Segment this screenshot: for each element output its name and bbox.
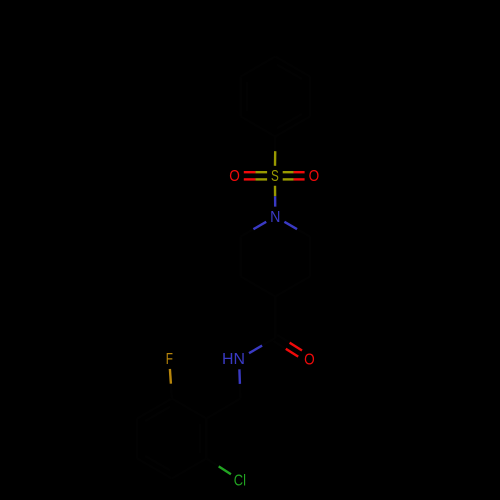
double bond C=O amide: [273, 341, 285, 349]
bond C3-C4 piperidine: [275, 277, 310, 297]
bond aryl C5-C6: [172, 459, 207, 479]
svg-text:S: S: [271, 168, 279, 185]
svg-text:O: O: [304, 352, 315, 369]
bond aryl C2 - F: [170, 384, 173, 399]
bond phenyl C1-C2: [241, 117, 276, 137]
bond aryl C6 - Cl: [206, 459, 218, 467]
bond phenyl C1 - S: [274, 137, 276, 152]
double bond phenyl C2=C3: [239, 77, 241, 117]
bond phenyl C5-C6: [309, 77, 311, 117]
bond C5-C6 piperidine: [239, 237, 241, 277]
bond C2-C3 piperidine: [309, 237, 311, 277]
svg-text:O: O: [309, 168, 320, 185]
double bond aryl C2=C3: [137, 399, 172, 419]
bond S - N piperidine: [274, 186, 277, 196]
bond CH2 - aryl C1: [206, 399, 240, 419]
svg-text:Cl: Cl: [234, 472, 246, 489]
bond N-CH2: [238, 369, 241, 384]
double bond aryl C6=C1: [205, 419, 207, 459]
bond C4 - carbonyl C: [274, 297, 276, 339]
double bond phenyl C6=C1: [275, 117, 310, 137]
double bond phenyl C4=C5: [275, 57, 310, 77]
bond aryl C3-C4: [136, 419, 138, 459]
bond C6-N piperidine: [241, 229, 254, 236]
double bond S=O left: [255, 171, 267, 173]
bond phenyl C3-C4: [241, 57, 276, 77]
bond C4-C5 piperidine: [241, 277, 276, 297]
bond N-C2 piperidine: [284, 222, 297, 229]
svg-text:O: O: [229, 168, 240, 185]
svg-text:F: F: [166, 351, 173, 368]
double bond S=O right: [283, 178, 294, 180]
bond aryl C1-C2: [172, 399, 207, 419]
svg-text:HN: HN: [222, 351, 245, 368]
bond C-N amide: [262, 338, 275, 346]
svg-text:N: N: [270, 209, 280, 226]
double bond aryl C4=C5: [137, 459, 172, 479]
